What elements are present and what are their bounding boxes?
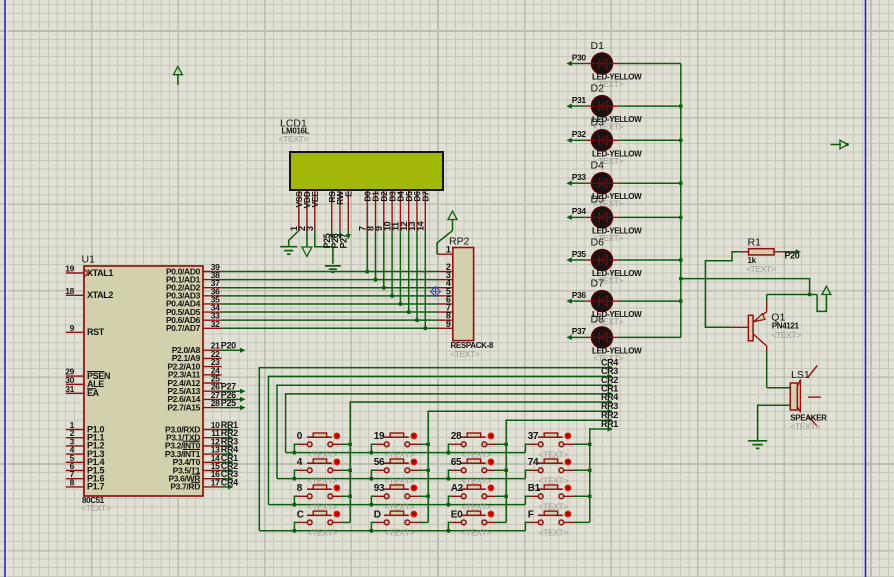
wire LCD D7 column to P0.7 [424,231,427,331]
transistor Q1 base bar [748,315,753,341]
Q1 emitter (arrow into base, PNP) [753,302,767,322]
wire keypad row 3 horizontal [269,504,526,506]
LCD1 pin 1 (VSS) [289,190,304,231]
net arrow CR1 at U1 pin 14 [221,453,238,465]
resistor R1 body [749,249,774,255]
resistor pack RP2 body [453,248,474,341]
LCD1 pin 13 (D6) [407,190,422,231]
wire LED D6 anode to LED bus [620,258,683,261]
svg-text:<TEXT>: <TEXT> [308,476,338,486]
Q1 property label [771,330,801,340]
net arrow P25 at LCD RS [322,231,334,249]
svg-text:18: 18 [65,286,74,296]
U1 pin 38 (P0.1/AD1) [166,270,222,284]
svg-text:P0.7/AD7: P0.7/AD7 [166,323,201,333]
wire LCD D1 column to P0.1 [374,231,377,282]
svg-text:28: 28 [451,431,462,442]
svg-text:P30: P30 [572,52,587,62]
push button 4 (row 2, col 1) [293,457,352,485]
svg-text:RR1: RR1 [601,419,618,429]
wire P0.6 (U1 pin 33 to RP2 pin 8) [222,319,437,321]
Q1 base pin stub [731,326,748,328]
LED D6 (LED-YELLOW) [586,236,642,285]
svg-text:<TEXT>: <TEXT> [539,476,569,486]
net label RR2 [601,410,618,420]
push button E0 (row 4, col 3) [447,509,507,537]
svg-text:<TEXT>: <TEXT> [790,422,820,432]
LCD1 pin 5 (RW) [335,190,345,231]
push button A2 (row 3, col 3) [447,483,508,511]
svg-text:D1: D1 [591,40,605,52]
wire P0.0 (U1 pin 39 to RP2 pin 2) [222,271,437,273]
microcontroller U1 body [84,266,203,496]
svg-text:RST: RST [87,327,105,337]
wire RP2 pin 1 to power arrow [437,231,453,255]
wire LS1 to ground [758,405,791,441]
net label CR3 [601,366,618,376]
U1 pin 9 (RST) [66,323,105,337]
LCD1 pin 9 (D2) [374,190,389,231]
wire LCD D3 column to P0.3 [390,231,393,298]
push button F (row 4, col 4) [525,509,589,537]
U1 pin 32 (P0.7/AD7) [166,319,222,333]
net arrow P31 at LED D2 [566,95,586,109]
U1 pin 28 (P2.7/A15) [167,398,221,412]
LED D1 (LED-YELLOW) [586,40,642,89]
U1 pin 10 (P3.0/RXD) [165,420,222,434]
LCD1 pin 3 (VEE) [305,190,320,231]
LCD1 reference label [280,118,307,130]
net label CR2 [601,375,618,385]
wire LCD VEE to ground [315,231,333,264]
RP2 pin 2 [437,262,453,272]
svg-text:31: 31 [65,384,74,394]
wire LED D4 anode to LED bus [620,182,683,185]
origin marker (blue diamond) [431,287,441,297]
push button 8 (row 3, col 1) [293,483,352,511]
wire LED bus vertical [680,64,682,338]
svg-text:<TEXT>: <TEXT> [746,264,776,274]
LS1 property label [790,422,820,432]
LCD LCD1 (LM016L) body [290,152,443,190]
net arrow P33 at LED D4 [566,172,586,186]
LCD1 pin 7 (D0) [357,190,372,231]
LS1 sound rays [808,366,821,427]
wire LED D1 anode to LED bus [620,63,681,65]
RP2 pin 6 [437,294,453,304]
svg-text:D5: D5 [591,194,605,206]
svg-text:P32: P32 [572,129,587,139]
net arrow P36 at LED D7 [566,290,586,304]
push button 65 (row 2, col 3) [447,457,508,485]
wire keypad row 4 horizontal [259,530,525,532]
svg-text:<TEXT>: <TEXT> [771,330,801,340]
R1 value label 1k [748,256,757,265]
svg-text:P37: P37 [572,326,587,336]
svg-text:VEE: VEE [310,191,320,208]
wire net RR3 (keypad column 2) [428,409,613,523]
wire LCD VDD stub [306,231,308,247]
svg-text:E: E [344,191,354,197]
U1 pin 16 (P3.6/WR) [168,469,221,483]
svg-text:<TEXT>: <TEXT> [462,450,492,460]
svg-text:D: D [374,509,381,520]
U1 pin 25 (P2.4/A12) [167,374,221,388]
net arrow P32 at LED D3 [566,129,586,143]
svg-text:P2.7/A15: P2.7/A15 [167,402,200,412]
ground at LCD VSS [280,247,297,255]
wire P0.2 (U1 pin 37 to RP2 pin 4) [222,287,437,289]
U1 pin 37 (P0.2/AD2) [166,278,222,292]
svg-text:CR4: CR4 [221,477,238,487]
net arrow P30 at LED D1 [566,52,586,66]
LED D4 (LED-YELLOW) [586,160,642,209]
net arrow RR3 at U1 pin 12 [221,436,238,448]
svg-text:D2: D2 [591,82,605,94]
R1 reference label [748,237,762,249]
net label RR1 [601,419,618,429]
U1 value label 80C51 [82,496,105,505]
U1 pin 14 (P3.4/T0) [173,453,222,467]
push button 56 (row 2, col 2) [370,457,430,485]
svg-text:<TEXT>: <TEXT> [308,450,338,460]
RP2 pin 7 [437,303,453,313]
svg-text:P33: P33 [572,172,587,182]
svg-text:1: 1 [446,245,451,255]
U1 pin 7 (P1.6) [66,469,105,483]
svg-text:P27: P27 [339,233,349,248]
svg-text:<TEXT>: <TEXT> [450,349,480,359]
svg-text:P34: P34 [572,206,587,216]
LED D8 (LED-YELLOW) [586,314,642,363]
svg-text:C: C [297,509,304,520]
push button 0 (row 1, col 1) [293,431,352,459]
U1 pin 2 (P1.1) [66,428,105,442]
U1 pin 29 (PSEN) [65,367,110,381]
U1 pin 33 (P0.6/AD6) [166,311,222,325]
wire Q1 collector to LS1 [767,352,791,388]
U1 pin 39 (P0.0/AD0) [166,262,222,276]
wire net CR3 (keypad row 3) [269,374,614,505]
svg-text:<TEXT>: <TEXT> [539,502,569,512]
R1 left pin stub [741,251,749,253]
wire LCD D0 column to P0.0 [366,231,369,274]
U1 pin 15 (P3.5/T1) [173,461,222,475]
svg-text:32: 32 [211,319,220,329]
U1 pin 31 (EA) [65,384,99,398]
U1 pin 8 (P1.7) [66,477,105,491]
push button 19 (row 1, col 2) [370,431,430,459]
LCD1 property label [279,134,309,144]
net arrow P35 at LED D6 [566,249,586,263]
net arrow P27 at LCD E [339,231,351,249]
push button 93 (row 3, col 2) [370,483,430,511]
svg-text:8: 8 [297,483,303,494]
svg-text:<TEXT>: <TEXT> [81,503,111,513]
speaker LS1 body [790,380,800,413]
svg-text:P3.7/RD: P3.7/RD [170,482,200,492]
wire Q1 emitter to VCC rail [767,295,817,302]
wire LED D7 anode to LED bus [620,299,683,302]
power arrow near Q1 [822,286,831,294]
svg-text:56: 56 [374,457,385,468]
RP2 reference label [449,236,470,248]
svg-text:<TEXT>: <TEXT> [385,502,415,512]
LCD1 pin 11 (D4) [391,190,406,231]
wire P0.3 (U1 pin 36 to RP2 pin 5) [222,295,437,297]
svg-text:LS1: LS1 [791,369,810,381]
push button 28 (row 1, col 3) [447,431,508,459]
wire net CR1 (keypad row 1) [286,391,613,452]
wire LCD D6 column to P0.6 [415,231,418,323]
svg-text:<TEXT>: <TEXT> [385,476,415,486]
U1 reference label [82,254,96,266]
net arrow P20 at R1 [783,249,801,260]
ground at LCD VEE [325,266,341,272]
svg-text:F: F [528,509,534,520]
power arrow above RP2 [448,211,457,231]
RP2 pin 3 [437,270,453,280]
svg-text:P1.7: P1.7 [87,482,104,492]
net arrow P27 at U1 pin 26 [221,382,246,394]
LCD1 pin 4 (RS) [327,190,337,231]
U1 pin 3 (P1.2) [66,436,105,450]
LCD1 pin 6 (E) [344,190,354,231]
U1 pin 19 (XTAL1) [65,264,113,278]
svg-text:B1: B1 [528,483,541,494]
wire R1 to Q1 base [705,252,740,327]
svg-text:D7: D7 [421,191,431,202]
svg-text:65: 65 [451,457,462,468]
wire net CR4 (keypad row 4) [259,365,613,531]
push button C (row 4, col 1) [293,509,351,537]
svg-text:D6: D6 [591,236,605,248]
wire P0.4 (U1 pin 35 to RP2 pin 6) [222,303,437,305]
Q1 reference label [771,312,785,324]
net arrow P34 at LED D5 [566,206,586,220]
svg-text:<TEXT>: <TEXT> [462,528,492,538]
net label CR1 [601,384,618,394]
wire LCD D4 column to P0.4 [399,231,402,306]
svg-text:37: 37 [528,431,539,442]
svg-text:XTAL2: XTAL2 [87,290,113,300]
svg-text:P36: P36 [572,290,587,300]
wire net RR1 (keypad column 4) [590,426,613,522]
svg-text:4: 4 [297,457,303,468]
RP2 pin 5 [437,286,453,296]
svg-text:0: 0 [297,431,303,442]
svg-text:93: 93 [374,483,385,494]
wire P0.5 (U1 pin 34 to RP2 pin 7) [222,311,437,313]
svg-text:P20: P20 [785,251,800,261]
U1 pin 24 (P2.3/A11) [168,365,222,379]
svg-text:<TEXT>: <TEXT> [462,502,492,512]
net arrow P20 at U1 pin 21 [221,341,246,353]
wire net CR2 (keypad row 2) [277,383,613,479]
wire net RR2 (keypad column 3) [506,418,613,523]
svg-text:A2: A2 [451,483,464,494]
svg-text:<TEXT>: <TEXT> [279,134,309,144]
U1 pin 30 (ALE) [65,375,104,389]
svg-text:U1: U1 [82,254,96,266]
LED D2 (LED-YELLOW) [586,82,642,131]
svg-text:28: 28 [211,398,220,408]
U1 pin 34 (P0.5/AD5) [166,303,222,317]
LS1 reference label [791,369,810,381]
U1 pin 5 (P1.4) [66,453,105,467]
net arrow top-right [831,140,849,149]
net label RR4 [601,392,618,402]
push button 37 (row 1, col 4) [525,431,591,459]
U1 pin 35 (P0.4/AD4) [166,294,222,308]
LCD1 pin 2 (VDD) [297,190,312,231]
wire keypad row 2 horizontal [277,478,525,480]
wire LED bus to VCC rail [679,277,811,296]
U1 pin 26 (P2.5/A13) [167,382,221,396]
R1 right pin stub [774,251,783,253]
net arrow CR3 at U1 pin 16 [221,469,238,481]
LCD1 value label LM016L [282,127,310,136]
push button D (row 4, col 2) [370,509,429,537]
U1 pin 12 (P3.2/INT0) [165,436,222,450]
RP2 value label RESPACK-8 [451,341,494,350]
U1 pin 21 (P2.0/A8) [172,341,222,355]
net arrow RR2 at U1 pin 11 [221,428,238,440]
net arrow P26 at U1 pin 27 [221,390,246,402]
sheet border right (blue) [865,0,867,577]
svg-text:14: 14 [416,221,426,231]
U1 pin 36 (P0.3/AD3) [166,286,222,300]
LCD1 pin 10 (D3) [382,190,397,231]
sheet border left (blue) [4,0,6,577]
net arrow P26 at LCD RW [330,231,342,249]
wire LED D5 anode to LED bus [620,216,683,219]
LCD1 pin 12 (D5) [399,190,414,231]
wire P0.1 (U1 pin 38 to RP2 pin 3) [222,279,437,281]
net arrow P25 at U1 pin 28 [221,398,246,410]
net arrow CR4 at U1 pin 17 [221,477,238,489]
U1 pin 22 (P2.1/A9) [172,349,222,363]
wire LCD D5 column to P0.5 [407,231,410,314]
svg-text:<TEXT>: <TEXT> [462,476,492,486]
wire keypad row 1 horizontal [286,452,526,454]
svg-text:P31: P31 [572,95,587,105]
net label CR4 [601,357,618,367]
svg-text:D7: D7 [591,277,605,289]
net arrow CR2 at U1 pin 15 [221,461,238,473]
svg-text:RP2: RP2 [449,236,470,248]
svg-text:<TEXT>: <TEXT> [385,450,415,460]
RP2 pin 4 [437,278,453,288]
svg-text:19: 19 [374,431,385,442]
wire LCD D2 column to P0.2 [382,231,385,290]
net arrow RR1 at U1 pin 10 [221,420,238,432]
svg-text:P35: P35 [572,249,587,259]
svg-text:D4: D4 [591,160,605,172]
svg-text:19: 19 [65,264,74,274]
power flag at LCD VDD (down arrow) [302,247,312,257]
svg-text:17: 17 [211,477,220,487]
svg-text:P20: P20 [221,341,236,351]
svg-text:3: 3 [305,226,315,231]
svg-text:8: 8 [70,477,75,487]
svg-text:<TEXT>: <TEXT> [539,528,569,538]
U1 property label [81,503,111,513]
U1 pin 23 (P2.2/A10) [167,357,221,371]
svg-text:D3: D3 [591,117,605,129]
wire VCC rail to power arrow [817,295,826,312]
wire LCD VSS to ground [289,231,299,247]
net arrow RR4 at U1 pin 13 [221,445,238,457]
LCD1 pin 14 (D7) [416,190,431,231]
svg-text:E0: E0 [451,509,463,520]
svg-text:9: 9 [70,323,75,333]
U1 pin 11 (P3.1/TXD) [166,428,222,442]
RP2 pin 8 [437,311,453,321]
svg-text:R1: R1 [748,237,762,249]
Q1 value label PN4121 [772,322,800,331]
push button B1 (row 3, col 4) [525,483,591,511]
svg-text:EA: EA [87,388,100,398]
U1 pin 4 (P1.3) [66,445,105,459]
Q1 collector [753,334,767,352]
U1 pin 13 (P3.3/INT1) [165,445,222,459]
wire net RR4 (keypad column 1) [350,399,613,522]
LED D7 (LED-YELLOW) [586,277,642,326]
svg-text:74: 74 [528,457,539,468]
U1 pin 18 (XTAL2) [65,286,113,300]
LCD1 pin 8 (D1) [366,190,381,231]
U1 pin 17 (P3.7/RD) [170,477,221,491]
wire LED D3 anode to LED bus [620,139,683,142]
U1 pin 27 (P2.6/A14) [167,390,221,404]
svg-text:<TEXT>: <TEXT> [385,528,415,538]
svg-text:XTAL1: XTAL1 [87,268,113,278]
RP2 pin 1 [437,245,453,255]
net label RR3 [601,401,618,411]
push button 74 (row 2, col 4) [525,457,591,485]
svg-text:<TEXT>: <TEXT> [308,528,338,538]
LED D3 (LED-YELLOW) [586,117,642,166]
power arrow top-left [173,67,182,86]
svg-text:9: 9 [446,319,451,329]
svg-text:D8: D8 [591,314,605,326]
wire P0.7 (U1 pin 32 to RP2 pin 9) [222,327,437,329]
RP2 pin 9 [437,319,453,329]
svg-text:P25: P25 [221,398,236,408]
svg-text:<TEXT>: <TEXT> [308,502,338,512]
LS1 value label SPEAKER [790,414,827,423]
RP2 property label [450,349,480,359]
svg-text:<TEXT>: <TEXT> [539,450,569,460]
LED D5 (LED-YELLOW) [586,194,642,243]
R1 property label [746,264,776,274]
wire LED D2 anode to LED bus [620,104,683,107]
U1 pin 6 (P1.5) [66,461,105,475]
U1 pin 1 (P1.0) [66,420,105,434]
wire LED D8 anode to LED bus [620,336,681,338]
ground at LS1 [748,441,767,449]
net arrow P37 at LED D8 [566,326,586,340]
